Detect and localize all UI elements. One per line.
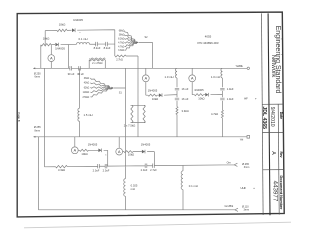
svg-text:Date: Date	[279, 112, 283, 119]
svg-text:3.3kΩ: 3.3kΩ	[58, 168, 65, 172]
svg-text:8.2kΩ: 8.2kΩ	[118, 38, 124, 40]
svg-text:8mm: 8mm	[35, 129, 41, 132]
svg-text:4.7kΩ: 4.7kΩ	[211, 112, 218, 116]
svg-text:1N4005: 1N4005	[55, 46, 65, 50]
svg-text:2 x 7.5kΩ: 2 x 7.5kΩ	[124, 123, 135, 127]
svg-text:8.2uF: 8.2uF	[94, 46, 101, 50]
svg-text:1N4005: 1N4005	[73, 18, 83, 22]
svg-text:2.7kΩ: 2.7kΩ	[116, 59, 123, 62]
svg-text:1N4005: 1N4005	[194, 88, 204, 92]
svg-text:16 uF: 16 uF	[182, 87, 189, 91]
svg-text:1N4005: 1N4005	[148, 88, 158, 92]
svg-text:30 uF: 30 uF	[77, 72, 84, 76]
svg-text:3.3kΩ: 3.3kΩ	[182, 109, 189, 113]
svg-text:0.1 mH: 0.1 mH	[189, 184, 198, 188]
svg-text:10kΩ: 10kΩ	[59, 23, 66, 27]
svg-text:Rev: Rev	[279, 151, 283, 157]
svg-text:9/4/2010: 9/4/2010	[269, 107, 275, 127]
svg-text:4055: 4055	[205, 34, 212, 38]
svg-text:1.0uF: 1.0uF	[227, 97, 234, 101]
svg-text:10kΩ: 10kΩ	[128, 152, 134, 156]
svg-text:6mm: 6mm	[35, 75, 41, 78]
svg-text:10kΩ: 10kΩ	[198, 96, 204, 100]
svg-text:UHF: UHF	[241, 186, 247, 190]
svg-text:10kΩ: 10kΩ	[152, 97, 158, 101]
svg-text:1N4005: 1N4005	[141, 143, 151, 147]
svg-text:4.7kΩ: 4.7kΩ	[118, 42, 124, 44]
svg-text:43kΩ: 43kΩ	[84, 83, 90, 85]
svg-text:mH: mH	[131, 187, 135, 191]
svg-text:62kΩ: 62kΩ	[84, 87, 90, 89]
svg-text:Document Number: Document Number	[279, 176, 283, 210]
svg-text:16 uF: 16 uF	[182, 97, 189, 101]
svg-text:110kΩ: 110kΩ	[83, 92, 90, 94]
svg-text:1.5 mH: 1.5 mH	[84, 113, 93, 117]
svg-text:HF: HF	[244, 97, 248, 101]
svg-text:68kΩ: 68kΩ	[119, 31, 125, 33]
svg-text:Yel: Yel	[240, 137, 244, 141]
svg-text:0.1 mH: 0.1 mH	[78, 37, 87, 41]
svg-text:YelBlk: YelBlk	[236, 64, 244, 68]
svg-text:3mm: 3mm	[244, 166, 250, 169]
svg-text:2 x 27kΩ: 2 x 27kΩ	[92, 61, 102, 65]
svg-text:270kΩ: 270kΩ	[82, 97, 89, 99]
svg-text:10kΩ: 10kΩ	[81, 152, 87, 156]
svg-text:+: +	[255, 97, 257, 101]
svg-text:10kΩ: 10kΩ	[43, 36, 50, 40]
svg-text:8.2uF: 8.2uF	[104, 46, 111, 50]
svg-text:Orn: Orn	[227, 161, 232, 165]
svg-text:2.7uF: 2.7uF	[150, 168, 157, 172]
svg-text:+: +	[253, 186, 255, 190]
svg-text:33kΩ: 33kΩ	[84, 78, 90, 80]
svg-text:30 uF: 30 uF	[68, 72, 75, 76]
svg-text:P/N 443896-003: P/N 443896-003	[197, 41, 218, 45]
svg-text:2.0uF: 2.0uF	[141, 168, 148, 172]
svg-text:Network: Network	[270, 55, 277, 79]
svg-text:1.0 mH: 1.0 mH	[164, 75, 173, 79]
svg-text:2.0uF: 2.0uF	[93, 169, 100, 173]
svg-text:443977: 443977	[271, 181, 278, 202]
svg-text:1.0uF: 1.0uF	[227, 87, 234, 91]
svg-text:36kΩ: 36kΩ	[119, 35, 125, 37]
svg-text:1.0 mH: 1.0 mH	[211, 75, 220, 79]
svg-text:3mm: 3mm	[244, 209, 250, 212]
svg-text:JDL 4365: JDL 4365	[261, 106, 267, 129]
svg-text:Grn/Blk: Grn/Blk	[224, 204, 233, 208]
svg-text:4.7kΩ: 4.7kΩ	[118, 46, 124, 48]
svg-text:2.0uF: 2.0uF	[103, 169, 110, 173]
svg-text:1N4005: 1N4005	[88, 143, 98, 147]
svg-text:A: A	[270, 151, 276, 155]
svg-text:0.025: 0.025	[131, 183, 138, 187]
svg-text:3.3kΩ: 3.3kΩ	[118, 50, 124, 52]
svg-text:Page B: Page B	[17, 112, 21, 121]
